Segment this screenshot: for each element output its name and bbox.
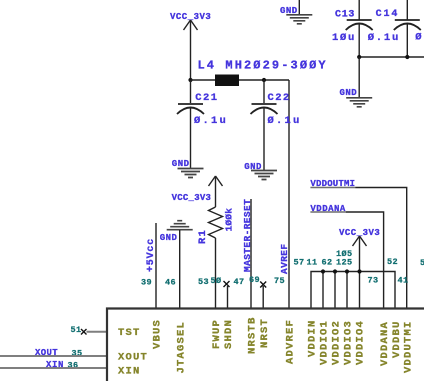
wire junction to L4 (191, 79, 217, 81)
svg-text:41: 41 (398, 276, 409, 286)
wire VDDIO1 drop (322, 272, 324, 309)
svg-text:FWUP: FWUP (211, 319, 223, 349)
svg-text:NRST: NRST (259, 318, 271, 348)
svg-text:JTAGSEL: JTAGSEL (176, 321, 188, 374)
net +5Vcc on VBUS (146, 223, 157, 308)
svg-text:VCC_3V3: VCC_3V3 (172, 193, 212, 203)
svg-text:47: 47 (234, 277, 245, 287)
wire VDDIO3 drop (346, 272, 348, 309)
wire C13-C14 bus to edge (359, 56, 424, 58)
net VDDOUTMI (310, 179, 406, 308)
svg-text:XOUT: XOUT (35, 348, 58, 358)
svg-text:GND: GND (172, 159, 190, 169)
svg-text:XIN: XIN (46, 360, 64, 370)
svg-text:Ø.1u: Ø.1u (368, 32, 400, 44)
svg-text:69: 69 (249, 275, 260, 285)
net MASTER-RESET on NRSTB (242, 199, 253, 308)
svg-text:62: 62 (322, 258, 333, 268)
capacitor C22 (251, 80, 302, 171)
svg-text:52: 52 (387, 257, 398, 267)
wire VDD bus (311, 272, 395, 309)
ground below C22 (244, 162, 277, 180)
svg-text:VDDANA: VDDANA (379, 321, 391, 366)
svg-text:AVREF: AVREF (279, 243, 290, 274)
svg-text:GND: GND (340, 88, 358, 98)
wire NRST stub (262, 286, 264, 308)
svg-text:XOUT: XOUT (118, 352, 148, 364)
svg-text:C13: C13 (335, 10, 355, 21)
node junction C13 (357, 55, 361, 59)
svg-text:VDDBU: VDDBU (391, 320, 403, 358)
wire L4 to ADVREF rail (239, 79, 289, 81)
svg-text:TST: TST (118, 327, 141, 339)
no-connect X on NRST (260, 282, 266, 288)
ground below C21 (172, 159, 204, 178)
svg-text:11: 11 (307, 258, 318, 268)
svg-text:Ø: Ø (415, 32, 423, 44)
svg-text:39: 39 (141, 278, 152, 288)
svg-text:L4 MH2Ø29-3ØØY: L4 MH2Ø29-3ØØY (198, 59, 328, 73)
node bus junctions (321, 269, 362, 273)
svg-text:57: 57 (294, 258, 305, 268)
svg-text:VBUS: VBUS (152, 319, 164, 349)
wire XOUT (0, 355, 107, 357)
wire SHDN stub (227, 286, 229, 308)
svg-text:VDDIO1: VDDIO1 (319, 320, 331, 365)
svg-text:C21: C21 (195, 92, 218, 104)
IC U1 outline (107, 309, 424, 381)
capacitor C14 (368, 0, 421, 57)
resistor R1 100k (197, 207, 235, 244)
wire VDDIO2 drop (334, 272, 336, 309)
ground on JTAGSEL (inverted) (160, 221, 193, 243)
wire junction to ground (358, 57, 360, 98)
node junction L4-C21 (188, 78, 192, 82)
svg-text:5: 5 (420, 258, 424, 268)
svg-text:VDDIO2: VDDIO2 (331, 320, 343, 365)
svg-text:125: 125 (336, 258, 353, 268)
capacitor C13 (332, 0, 373, 57)
svg-text:VDDIN: VDDIN (307, 319, 319, 357)
svg-text:VDDIO4: VDDIO4 (355, 320, 367, 365)
svg-text:73: 73 (368, 276, 379, 286)
svg-text:5Ø: 5Ø (211, 276, 222, 286)
svg-text:Ø.1u: Ø.1u (194, 115, 228, 127)
ground top-center (280, 0, 312, 24)
svg-text:XIN: XIN (118, 366, 141, 378)
wire ground to JTAGSEL pin (179, 230, 181, 308)
svg-text:NRSTB: NRSTB (247, 316, 259, 354)
svg-text:Ø.1u: Ø.1u (268, 115, 302, 127)
wire VCC to R1 (215, 176, 217, 207)
capacitor C21 (177, 80, 228, 169)
wire XIN (0, 367, 107, 369)
no-connect X on SHDN (224, 281, 230, 287)
svg-text:75: 75 (274, 276, 285, 286)
svg-text:C22: C22 (268, 92, 291, 104)
node junction L4-C22 (262, 78, 266, 82)
power VCC_3V3 middle (172, 176, 223, 203)
power VCC_3V3 top-left (170, 12, 211, 30)
wire TST stub (87, 331, 108, 333)
wire VDDIO4 drop (359, 272, 361, 309)
svg-text:R1: R1 (197, 229, 209, 244)
net VDDANA (310, 204, 383, 308)
svg-text:1ØØk: 1ØØk (224, 208, 235, 232)
svg-text:ADVREF: ADVREF (285, 319, 297, 364)
svg-text:VDDUTMI: VDDUTMI (403, 320, 415, 373)
node junction C14 (405, 55, 409, 59)
ground below C13 (340, 88, 373, 107)
svg-text:51: 51 (71, 325, 82, 335)
power VCC_3V3 right (339, 228, 380, 246)
svg-text:VDDIO3: VDDIO3 (343, 320, 355, 365)
svg-text:C14: C14 (376, 9, 400, 20)
wire VCC_3V3 to junction (190, 20, 192, 80)
inductor L4 MH2029-300Y (198, 59, 328, 87)
svg-text:53: 53 (198, 277, 209, 287)
svg-text:46: 46 (165, 278, 176, 288)
wire R1 to FWUP pin (215, 238, 217, 308)
svg-text:SHDN: SHDN (223, 319, 235, 349)
wire ADVREF rail vertical (288, 80, 290, 308)
no-connect X on TST (81, 329, 87, 335)
svg-text:1Øu: 1Øu (332, 32, 356, 44)
wire VCC to VDD bus (359, 236, 361, 272)
svg-text:GND: GND (160, 233, 178, 243)
